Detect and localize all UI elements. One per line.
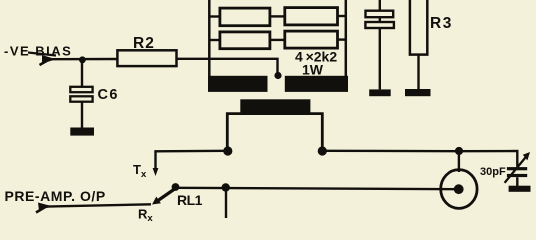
wire node down to connector [458,151,460,172]
resistor bank 4x2k2 resistor 1 [220,8,270,26]
svg-text:30pF: 30pF [480,166,506,178]
relay RL1 arm arrowhead [152,197,161,205]
transformer T1 primary right half [285,76,348,92]
node transformer center tap [274,72,281,79]
wire 30pF to ground [516,177,518,186]
transformer T1 primary left half [208,76,268,92]
relay RL1 switch arm [158,188,176,201]
wire row1 middle [270,15,285,17]
wire bus stub row1 left [209,15,220,17]
ground R3 [405,89,431,96]
svg-text:R3: R3 [430,15,453,32]
node secondary left [223,146,232,155]
ground C6 [70,128,94,136]
wire row2 middle [270,39,285,41]
connector SK1 centre pin [454,184,464,194]
svg-text:PRE-AMP. O/P: PRE-AMP. O/P [5,188,106,204]
wire left bus [208,0,211,78]
wire -VE BIAS to R2 [50,58,118,61]
wire Tx branch [156,151,228,169]
wire RL1 common to connector pin [176,188,459,189]
wire right bus [345,0,348,78]
capacitor (decoupling, unlabelled) [365,11,394,28]
svg-text:Tx: Tx [133,162,147,180]
node junction on RL1 line [222,183,230,191]
wire secondary leads [227,114,322,150]
wire bus stub row2 right [338,38,346,40]
svg-text:1W: 1W [302,62,324,78]
wire PRE-AMP input arrow [36,203,52,213]
node secondary right [318,146,327,155]
resistor bank 4x2k2 resistor 2 [285,8,338,25]
resistor R2 [117,50,176,66]
svg-text:Rx: Rx [138,207,153,222]
node antenna junction [455,147,463,155]
wire C6 to ground [81,102,83,128]
node RL1 pivot [172,183,180,191]
wire PRE-AMP to switch contact [46,204,151,206]
capacitor C6 [70,87,92,102]
svg-text:RL1: RL1 [177,192,203,208]
node junction at C6 [79,56,86,63]
svg-text:-VE BIAS: -VE BIAS [4,43,72,58]
wire R3 to ground [417,55,419,89]
variable capacitor 30pF plates [507,167,527,177]
ground decoupling capacitor [369,89,391,96]
wire Tx arrowhead [153,168,159,176]
wire secondary right to antenna node [322,151,517,167]
variable capacitor 30pF arrow [505,152,530,183]
wire decoupling capacitor top [379,0,381,89]
wire junction down [225,188,227,218]
connector SK1 coax socket [441,170,477,209]
svg-text:C6: C6 [98,87,119,103]
resistor bank 4x2k2 resistor 4 [285,31,338,48]
transformer T1 secondary [240,99,310,113]
resistor bank 4x2k2 resistor 3 [220,32,270,49]
wire bus stub row2 left [209,39,220,41]
wire R2 to transformer center tap [177,59,278,74]
ground 30pF [509,186,531,192]
wire -VE BIAS input arrow [28,53,56,66]
resistor R3 [410,0,427,55]
wire junction down to C6 [81,60,83,87]
wire bus stub row1 right [338,15,346,17]
